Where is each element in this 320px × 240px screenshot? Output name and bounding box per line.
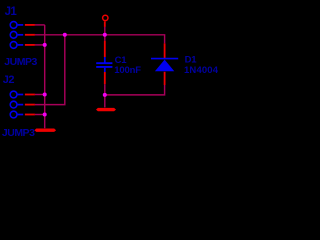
wire: J2 pin2 horizontal then up to top net bbox=[35, 35, 65, 105]
capacitor C1 bottom plate bbox=[96, 66, 112, 68]
wire: bottom net horizontal cap to diode bbox=[105, 85, 165, 95]
capacitor C1 top pin bbox=[104, 41, 106, 57]
wire: top net horizontal J1 pin2 to diode corner bbox=[35, 35, 165, 44]
junction dot at bus / J2 pin3 bbox=[43, 113, 47, 117]
capacitor C1 top stem bbox=[104, 57, 106, 63]
connector J2 pin 3 (red pin) bbox=[25, 114, 35, 116]
connector J1 pin 1 stub bbox=[18, 24, 24, 26]
ground symbol under capacitor (center) bbox=[96, 108, 116, 111]
capacitor C1 bottom pin bbox=[104, 72, 106, 84]
connector J1 pin 3 (red pin) bbox=[25, 44, 35, 46]
junction dot at bus / J1 pin3 bbox=[43, 43, 47, 47]
svg-text:JUMP3: JUMP3 bbox=[4, 56, 37, 68]
connector J2 pin 3 stub bbox=[18, 114, 24, 116]
junction dot at top net / terminal-capacitor column bbox=[103, 33, 107, 37]
diode D1 triangle bbox=[155, 60, 174, 72]
svg-text:JUMP3: JUMP3 bbox=[2, 127, 35, 139]
junction dot at bus / J2 pin1 bbox=[43, 93, 47, 97]
diode D1 bottom pin (anode) bbox=[164, 72, 166, 85]
connector J2 pin 1 (red pin) bbox=[25, 94, 35, 96]
connector J1 pin 1 (red pin) bbox=[25, 24, 35, 26]
connector J1 pin 3 stub bbox=[18, 44, 24, 46]
junction dot at bottom net / capacitor column bbox=[103, 93, 107, 97]
wire: capacitor bottom to bottom net bbox=[104, 84, 106, 107]
connector J1 pin 3 circle bbox=[10, 42, 17, 49]
diode D1 cathode bar bbox=[151, 58, 178, 60]
open terminal circle (power input) bbox=[103, 15, 108, 20]
connector J1 pin 2 circle bbox=[10, 31, 17, 38]
capacitor C1 top plate bbox=[96, 62, 112, 64]
connector J1 pin 1 circle bbox=[10, 22, 17, 29]
ground symbol under bus (left) bbox=[34, 129, 56, 132]
connector J2 pin 2 circle bbox=[10, 101, 17, 108]
wire: J1 pin3 to bus bbox=[35, 44, 45, 46]
connector J2 pin 2 stub bbox=[18, 104, 24, 106]
connector J1 pin 2 (red pin) bbox=[25, 34, 35, 36]
svg-text:J1: J1 bbox=[5, 6, 18, 18]
wire: J1 pin1 to ground bus corner bbox=[35, 24, 45, 26]
svg-text:1N4004: 1N4004 bbox=[184, 65, 219, 76]
connector J2 pin 1 stub bbox=[18, 94, 24, 96]
wire: terminal down to top net bbox=[104, 27, 106, 41]
svg-text:100nF: 100nF bbox=[114, 65, 141, 76]
connector J2 pin 1 circle bbox=[10, 91, 17, 98]
connector J1 pin 2 stub bbox=[18, 34, 24, 36]
wire: J2 pin3 to bus bbox=[35, 114, 45, 116]
capacitor C1 bottom stem bbox=[104, 68, 106, 72]
diode D1 top pin (cathode) bbox=[164, 43, 166, 58]
connector J2 pin 2 (red pin) bbox=[25, 104, 35, 106]
connector J2 pin 3 circle bbox=[10, 111, 17, 118]
junction dot at top net / J2 pin2 riser bbox=[63, 33, 67, 37]
open terminal pin bbox=[104, 21, 106, 26]
wire: J2 pin1 to bus bbox=[35, 94, 45, 96]
wire: ground bus vertical x=44.7 bbox=[44, 25, 46, 128]
svg-text:J2: J2 bbox=[3, 74, 15, 86]
